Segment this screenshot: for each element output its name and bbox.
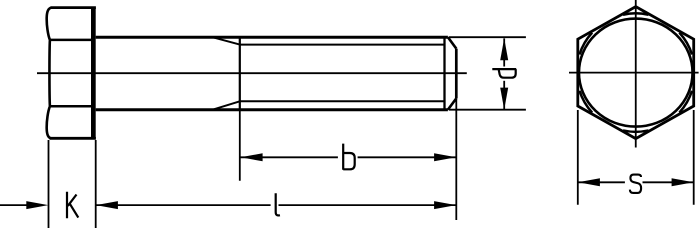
k extension line left — [48, 140, 50, 228]
l dimension line left — [96, 204, 271, 206]
l arrow right — [434, 201, 456, 209]
s dimension line left — [578, 181, 625, 183]
l arrow left — [96, 201, 118, 209]
hexagon outline — [578, 7, 694, 139]
b extension line — [239, 110, 241, 181]
shank top outline — [96, 36, 448, 39]
head-shank junction thick line — [91, 8, 96, 139]
l dimension line right — [279, 204, 457, 206]
d extension line bottom — [449, 109, 526, 111]
k extension line right — [95, 140, 97, 228]
b arrow left — [241, 153, 263, 161]
label k — [67, 192, 78, 219]
d arrow down — [500, 88, 508, 110]
label l — [276, 193, 280, 215]
hex head top face line — [51, 6, 96, 9]
d dimension line upper — [503, 38, 505, 66]
d extension line top — [449, 36, 526, 38]
end view vertical centerline — [635, 0, 637, 148]
thread runout bottom — [214, 101, 240, 109]
thread minor bottom — [240, 100, 445, 102]
thread minor top — [240, 44, 445, 46]
l extension line right — [455, 98, 457, 220]
hex head bottom face line — [50, 137, 96, 140]
b dimension line right — [358, 156, 457, 158]
s extension line left — [577, 110, 579, 205]
end chamfer bottom — [448, 98, 456, 109]
b dimension line left — [240, 156, 338, 158]
end face line — [455, 49, 458, 99]
k leader line — [0, 204, 30, 206]
thread start line — [239, 37, 241, 110]
d dimension line lower — [503, 81, 505, 110]
shank bottom outline — [96, 108, 448, 111]
label d (rotated) — [492, 69, 516, 78]
s arrow left — [578, 178, 600, 186]
s dimension line right — [643, 181, 694, 183]
b arrow right — [434, 153, 456, 161]
hex head upper face edge — [50, 39, 93, 42]
hex head lower face edge — [50, 105, 93, 108]
end chamfer top — [448, 37, 456, 48]
side view centerline — [37, 72, 467, 74]
chamfer start line — [443, 37, 445, 110]
end view horizontal centerline — [569, 72, 699, 74]
s arrow right — [672, 178, 694, 186]
thread runout top — [214, 38, 240, 45]
d arrow up — [500, 38, 508, 60]
hex head left silhouette arcs — [47, 8, 52, 139]
k arrow (outside, pointing right) — [26, 201, 48, 209]
corner cap arcs — [579, 13, 692, 132]
label s — [630, 175, 641, 193]
s extension line right — [693, 110, 695, 205]
label b — [343, 144, 355, 170]
chamfer circle — [579, 19, 693, 127]
